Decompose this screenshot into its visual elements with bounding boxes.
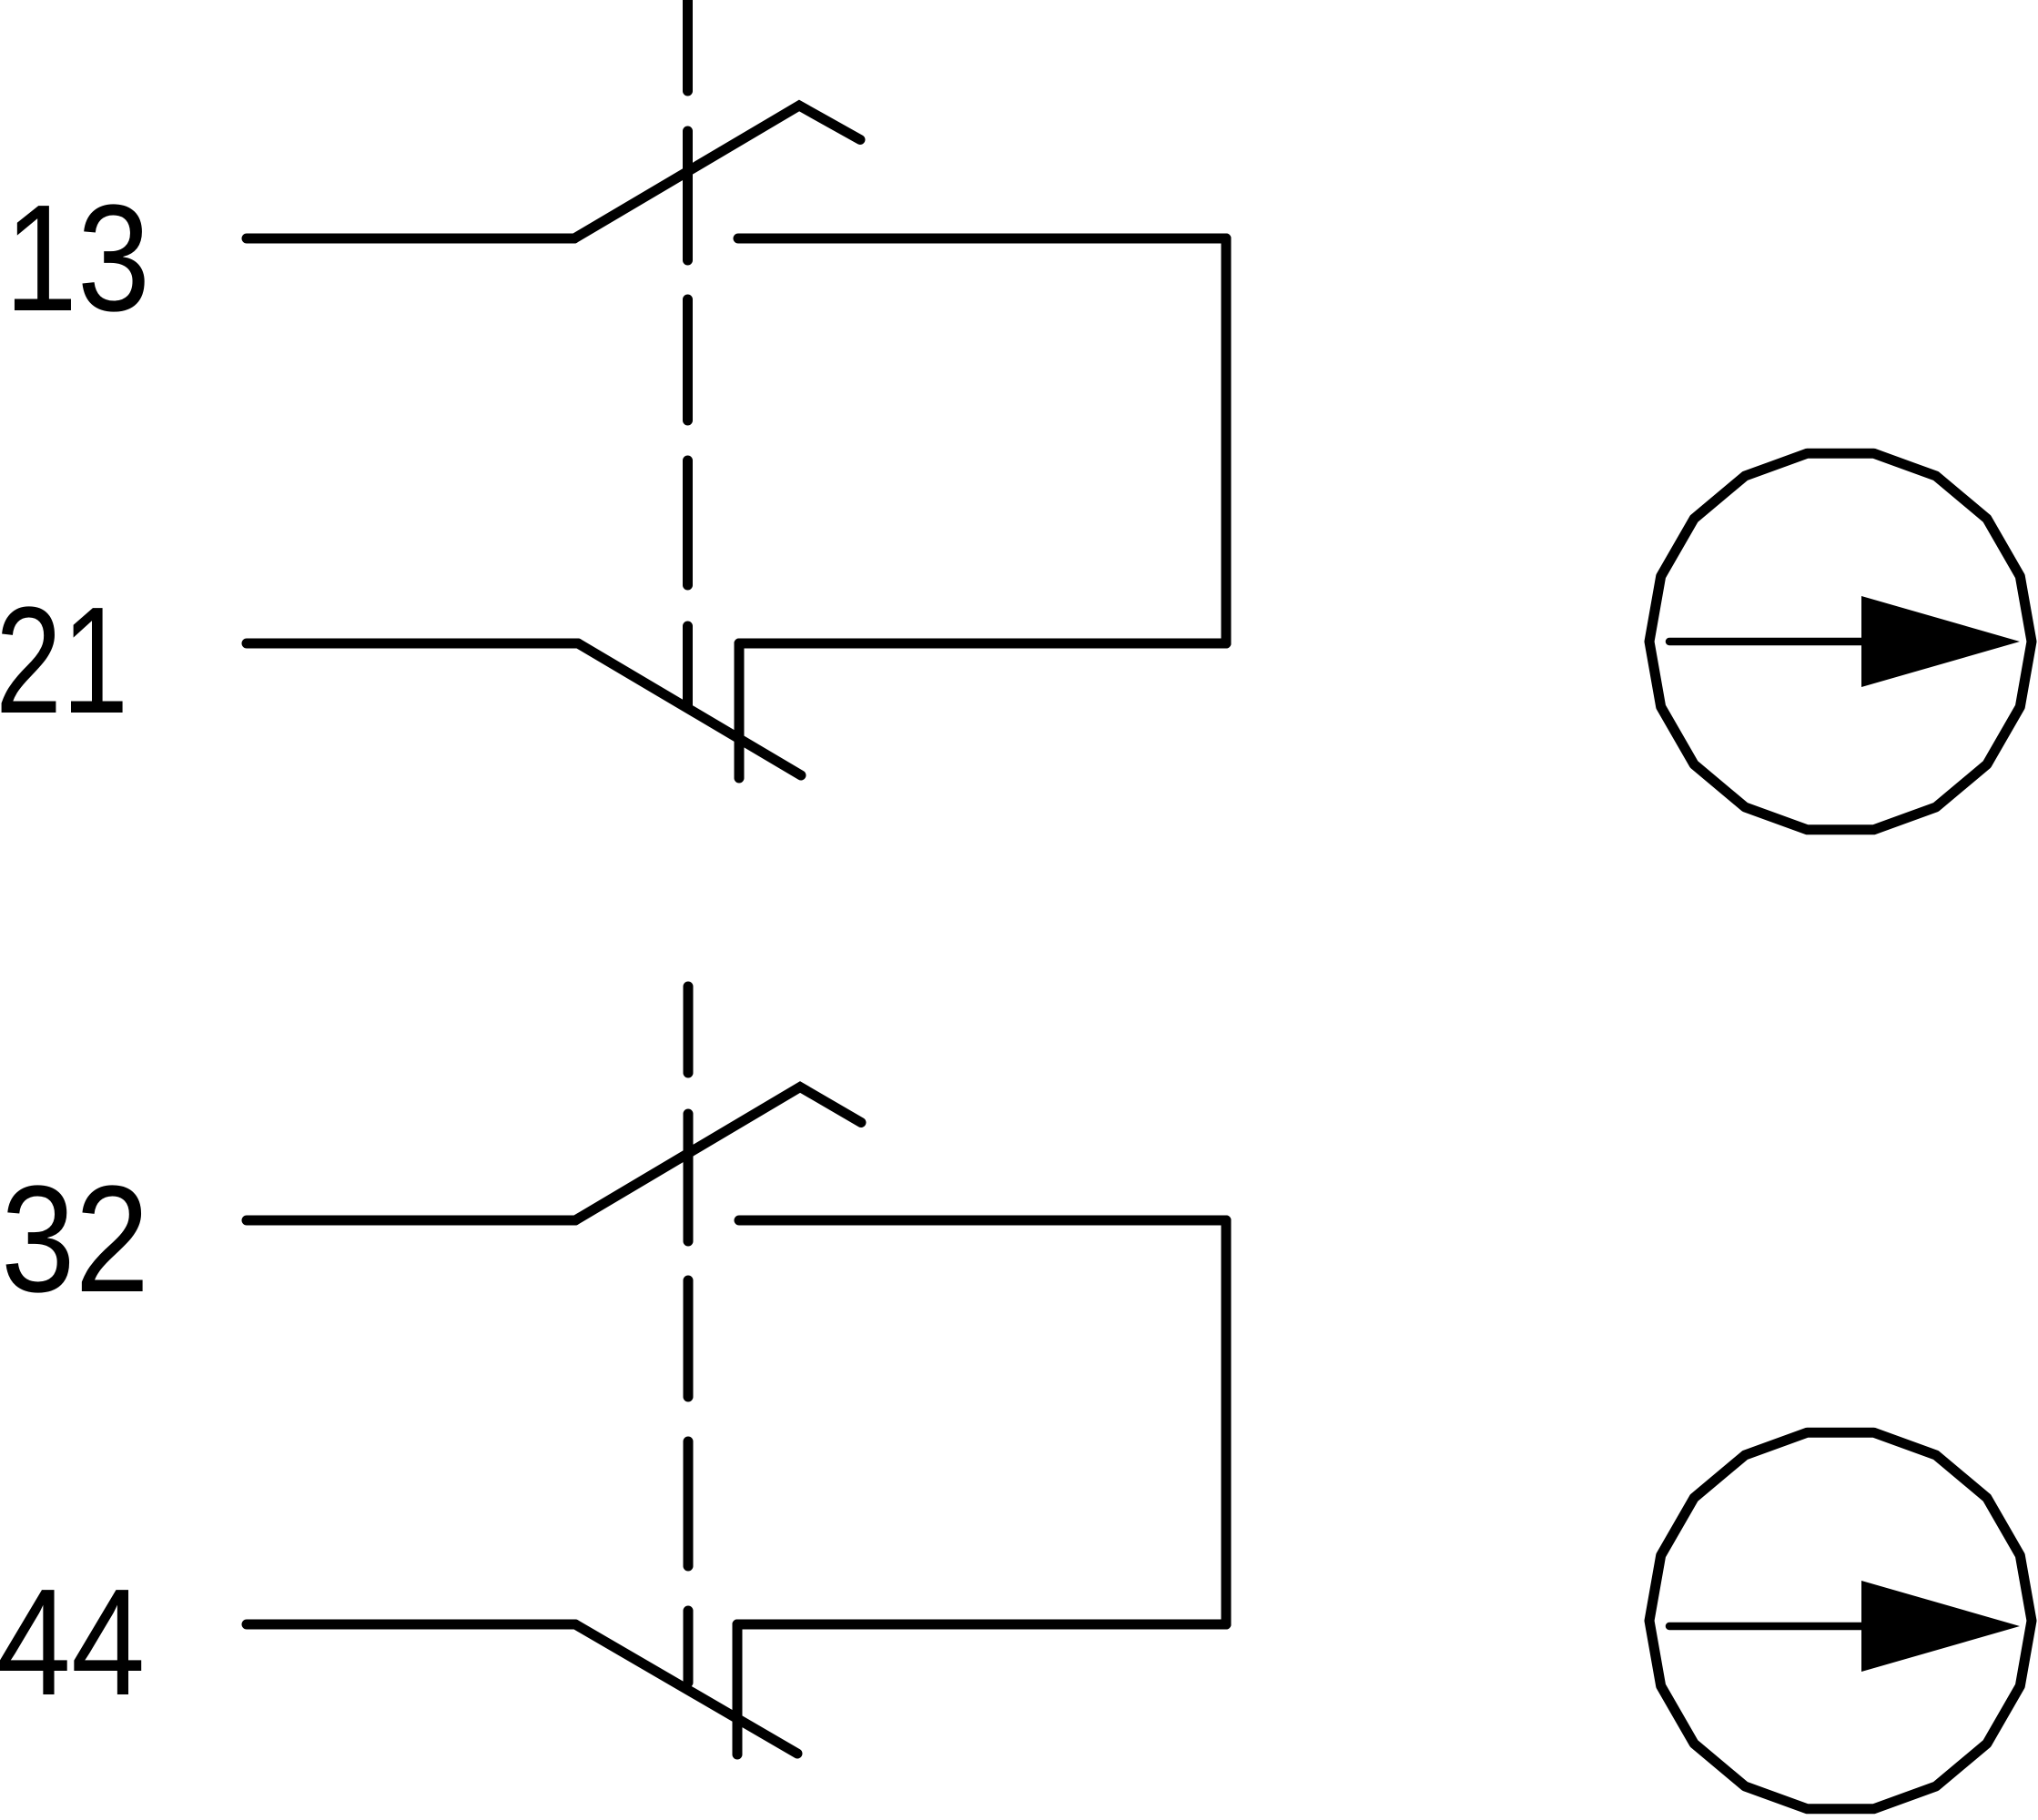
contact NC 44 moving blade <box>575 1624 797 1754</box>
actuator arrow head bottom <box>1861 1581 2020 1672</box>
wire terminal 13 left <box>247 234 574 244</box>
contact NC 21-22 moving blade <box>578 643 801 775</box>
NC fixed contact bar 21 <box>735 643 745 778</box>
svg-text:32: 32 <box>1 1155 149 1324</box>
wire bracket vertical joining 13 and 21 fixed sides <box>1222 238 1232 643</box>
actuator arrow shaft bottom <box>1669 1623 1871 1631</box>
contact NO 32 moving blade with bent actuator tip <box>575 1087 861 1221</box>
wire terminal 21 right <box>739 639 1226 649</box>
actuator arrow head top <box>1861 596 2020 687</box>
actuator symbol top: turn-to-actuate circle <box>1649 453 2032 830</box>
svg-text:21: 21 <box>0 576 128 745</box>
svg-text:13: 13 <box>5 174 150 343</box>
wire NO fixed contact 32 right <box>739 1216 1226 1226</box>
NC fixed contact bar 44 <box>733 1624 743 1754</box>
actuator arrow shaft top <box>1669 638 1871 646</box>
wire NO fixed contact 13 right <box>738 234 1226 244</box>
contact NO 13-14 moving blade with bent actuator tip <box>574 106 860 238</box>
mechanical linkage dashed line (top contact block) <box>683 0 693 706</box>
wire terminal 44 left <box>247 1620 575 1630</box>
svg-text:44: 44 <box>0 1558 146 1727</box>
mechanical linkage dashed line (bottom contact block) <box>684 986 694 1683</box>
actuator symbol bottom: turn-to-actuate circle <box>1649 1432 2032 1809</box>
wire terminal 44 right <box>737 1620 1226 1630</box>
wire bracket vertical joining 32 and 44 fixed sides <box>1222 1220 1232 1624</box>
wire terminal 21 left <box>247 639 578 649</box>
wire terminal 32 left <box>247 1216 575 1226</box>
